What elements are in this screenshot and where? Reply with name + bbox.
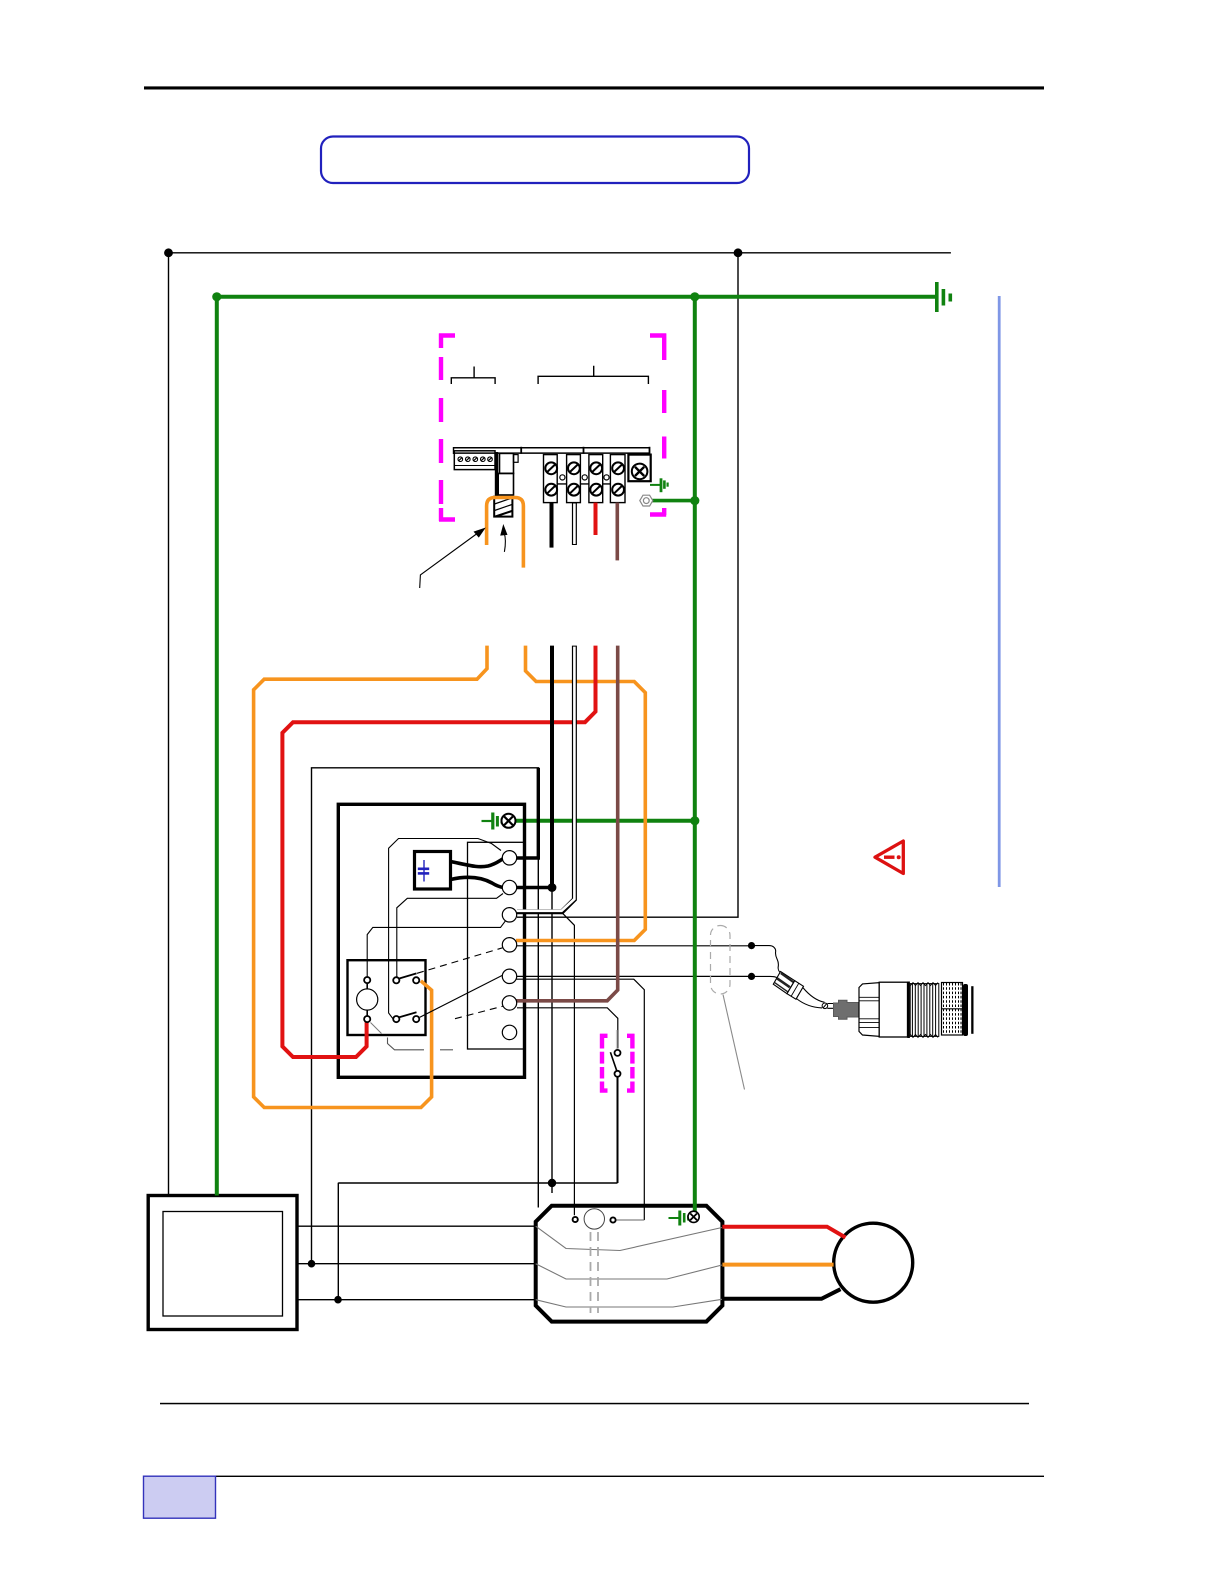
node: junction dot mid on supply rail [734, 248, 743, 257]
wire: motor to pump orange lead [722, 1263, 833, 1267]
revision change bar (blue) [998, 296, 1001, 887]
black: power wire to terminal 2 [550, 646, 554, 888]
orange: fuse loop top [487, 498, 524, 568]
motor internal capacitor dashes [590, 1232, 592, 1313]
wire: neutral thin drop from terminal 2 junction to return run [551, 888, 553, 1194]
connector end washer [963, 984, 968, 1036]
magenta bracket around flow switch left [600, 1034, 608, 1093]
motor internal lead 1 [536, 1226, 722, 1250]
brown: auxiliary wire to terminal 6 [516, 646, 618, 1001]
label brace left (terminal group) [451, 367, 495, 385]
terminal column housing [468, 842, 525, 1049]
node: green junction top left [212, 292, 221, 301]
terminal column circle 3 [502, 908, 516, 922]
wire: mid supply drop to terminal 3 [517, 253, 738, 917]
display box inner bezel [163, 1212, 283, 1317]
wire: top supply rail [168, 252, 951, 254]
motor terminal center hub [584, 1209, 604, 1229]
terminal strip left connector block [454, 451, 495, 470]
inter-terminal pilot holes [560, 475, 565, 480]
green: earth glyph in control box [482, 813, 502, 830]
terminal screws bottom row [545, 484, 624, 496]
left block mini screws [458, 457, 492, 462]
connector pigtail wire 1 [752, 946, 782, 974]
power terminal block 1 [544, 455, 558, 503]
fuse holder F1 [495, 452, 498, 496]
wire: capacitor lead to terminal 2 [451, 877, 504, 887]
pump motor circle [834, 1223, 913, 1302]
wire: thick lead terminal 1 up to enclosure loop [516, 768, 538, 858]
relay contact top left [393, 977, 399, 983]
terminal strip DIN rail [454, 447, 650, 449]
thin wire: terminal 2 to relay top contact [397, 894, 503, 978]
wire: motor left terminal lead (thin) [563, 913, 575, 1215]
thin wire: relay coil top to terminal 3 [367, 921, 505, 977]
cable gland (hatched) [773, 972, 803, 1000]
wire: terminal 6 branch to flow switch [517, 1008, 618, 1049]
power terminal block 3 [589, 455, 603, 503]
black: power wire stub [550, 503, 554, 548]
wire: display box output 1 [297, 1225, 536, 1227]
motor terminal right [610, 1217, 615, 1222]
green: terminal strip earth link [652, 499, 695, 503]
motor terminal left [573, 1217, 578, 1222]
motor internal lead 3 [536, 1299, 722, 1307]
terminal bus links [557, 483, 610, 485]
relay coil [357, 989, 378, 1010]
thin contour below relay [388, 1038, 425, 1050]
display box (controller) [148, 1196, 297, 1330]
wire: terminal 5 branch to motor right terminal [516, 979, 644, 1220]
relay contact bottom left [393, 1016, 399, 1022]
wire: display box output 2 [297, 1263, 536, 1265]
green: top earth bus [217, 295, 938, 299]
red: loop from terminal strip to relay coil [282, 646, 595, 1057]
molded plug (dark) [834, 1000, 860, 1019]
flow switch S1 upper lead (gray) [616, 1030, 618, 1049]
flow switch S1 contacts [615, 1050, 621, 1056]
node: green junction at strip earth [690, 496, 699, 505]
power terminal block 4 [610, 455, 625, 503]
motor junction box outline [536, 1206, 723, 1322]
wire: switch return horizontal run [338, 1182, 617, 1184]
title box (empty, blue rounded) [321, 137, 749, 184]
screw: control box earth screw [502, 814, 516, 828]
terminal column circle 6 [502, 996, 516, 1010]
wire: display box output 3 [297, 1299, 536, 1301]
wire: left supply drop to display box [168, 253, 170, 1196]
connector leader line [723, 995, 745, 1090]
orange: right branch to terminal 4 [516, 646, 645, 941]
capacitor C1 box [415, 852, 451, 890]
wire: flow switch lower lead [617, 1077, 619, 1183]
black: terminal 2 link [516, 886, 552, 890]
terminal column circle 7 [502, 1025, 516, 1039]
hex nut at strip earth [640, 495, 653, 506]
thin wire dashed: terminal 4 to relay top right contact [417, 948, 503, 974]
cable curve to plug [796, 999, 822, 1008]
node: connector junction dot 1 [748, 942, 755, 949]
thin gray stub from coil bottom [371, 1023, 382, 1034]
connector body barrel [879, 982, 907, 1037]
green: control box earth link [509, 819, 695, 823]
node: junction dot return / output 3 [334, 1296, 342, 1304]
node: junction dot terminal 2 [548, 883, 557, 892]
wire: enclosure loop (thin) display box to motor [312, 768, 539, 1264]
wire: switch return line down-left to display output 3 [337, 1183, 339, 1300]
white: neutral wire stub (outlined) [572, 503, 577, 545]
green: earth glyph at motor [669, 1211, 689, 1226]
brown: auxiliary wire stub [615, 503, 619, 561]
thin wire dashed: terminal 6 to relay bottom contact [455, 1006, 504, 1019]
green: right earth bus drop to motor [693, 297, 697, 1212]
magenta bracket around flow switch right [627, 1034, 634, 1093]
node: green junction top right [690, 292, 699, 301]
label brace right (power group) [538, 366, 648, 384]
cable clamp symbol [822, 1003, 828, 1009]
footer rule upper [160, 1403, 1029, 1405]
node: junction dot enclosure loop / output 2 [308, 1260, 316, 1268]
relay blade bottom [399, 1012, 417, 1017]
header rule [144, 86, 1044, 89]
green: left earth bus drop [215, 297, 219, 1196]
terminal column circle 2 [502, 880, 516, 894]
green: earth symbol at top right [937, 282, 951, 312]
terminal column circle 4 [502, 938, 516, 952]
green: earth glyph at strip [650, 478, 668, 492]
strip earth screw [632, 464, 648, 480]
terminal column circle 1 [502, 851, 516, 865]
power terminal block 2 [567, 455, 581, 503]
control box outer (thick) [338, 804, 524, 1077]
fuse cartridge (hatched) [494, 497, 512, 517]
thin wire: terminal 5 to relay bottom right contact [420, 975, 504, 1018]
node: connector junction dot 2 [748, 973, 755, 980]
red: stub above label gap [594, 503, 598, 535]
white: neutral wire to terminal 3 (outlined) [517, 646, 574, 912]
wire: motor to pump black lead [722, 1289, 840, 1299]
terminal column circle 5 [502, 969, 516, 983]
relay blade top [399, 973, 417, 978]
magenta framing bracket left [439, 334, 455, 522]
magenta framing bracket right [650, 334, 666, 516]
leader arrow to fuse cartridge [500, 524, 507, 552]
connector body cup [859, 983, 879, 1037]
thin wire: terminal 1 loop around capacitor to relay bottom contact [389, 839, 501, 1020]
relay contact top right [413, 977, 419, 983]
connector thread section [910, 983, 939, 1038]
strip right earth block [628, 455, 650, 482]
leader arrow to fuse holder [420, 528, 486, 589]
orange: left loop through relay contact [254, 646, 487, 1108]
connector outline pill (dashed) [711, 926, 731, 995]
connector knurled nut [942, 983, 963, 1036]
footer page-number box [144, 1476, 216, 1518]
wire: capacitor lead to terminal 1 [451, 859, 504, 867]
footer rule lower [144, 1476, 1045, 1477]
relay contact bottom right [413, 1016, 419, 1022]
node: junction dot return run [548, 1179, 556, 1187]
node: junction dot left on supply rail [164, 248, 173, 257]
relay coil terminal top [364, 977, 370, 983]
terminal screws top row [545, 462, 624, 474]
capacitor C1 symbol (blue) [418, 860, 429, 882]
motor internal lead 2 [536, 1264, 722, 1279]
relay K1 box [348, 960, 426, 1035]
connector pigtail wire 2 [752, 976, 778, 978]
wire: terminal 5 sense line to connector [516, 975, 752, 977]
relay coil terminal bottom [364, 1016, 370, 1022]
wire: motor to pump red lead [722, 1227, 845, 1238]
warning triangle (rotated) [875, 841, 903, 874]
flow switch blade [610, 1052, 616, 1071]
screw: earth screw at motor [688, 1211, 699, 1222]
node: green junction at control box link [690, 816, 699, 825]
wire: terminal 4 sense line to connector [516, 945, 752, 947]
